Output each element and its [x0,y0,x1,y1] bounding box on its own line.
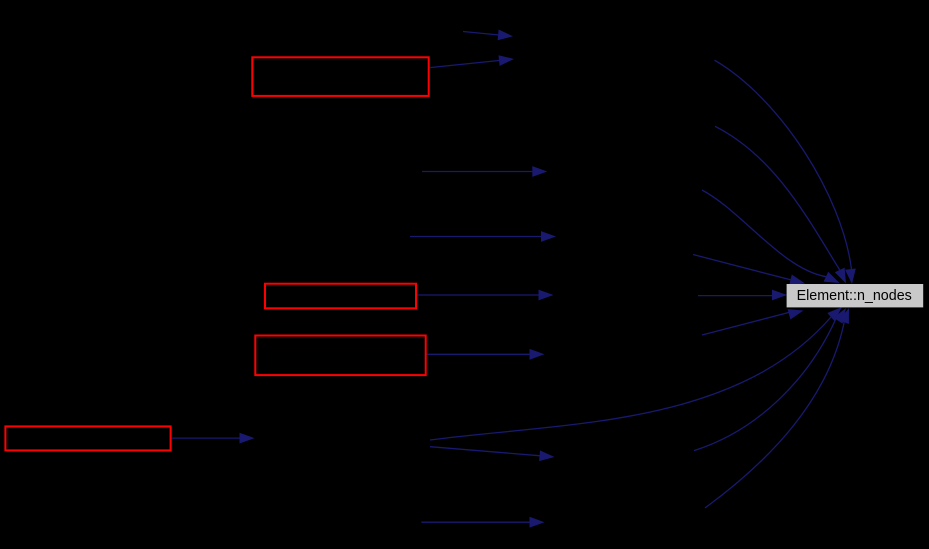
wire arrow edge3 (hidden caller to mid node 3) [422,166,547,177]
red node box R1 [252,57,428,96]
wire curve A (mid node 1 to Element::n_nodes top) [715,60,856,284]
wire arrow edge9 (hidden caller to mid node 8) [421,517,544,528]
red node box R3 [255,336,425,376]
wire diagonal S (mid node 6 to Element::n_nodes bottom-left) [702,309,804,335]
wire curve F (mid node 7 to Element::n_nodes bottom) [694,308,846,451]
wire arrow edge1 (hidden caller to mid node 1) [463,30,513,41]
wire arrow edge4 (hidden caller to mid node 4) [410,231,556,242]
wire curve E (col2 node to Element::n_nodes bottom) [430,307,842,440]
red node box R2 [265,284,416,309]
red node box R4 [5,426,170,450]
wire arrow edge2 (red box R1 to mid node 1) [430,55,514,67]
svg-text:Element::n_nodes: Element::n_nodes [797,288,912,304]
wire arrow H (mid node 5 to Element::n_nodes left) [698,290,787,301]
wire arrow edge5 (red box R2 to mid node 5) [417,290,554,301]
wire diagonal D (mid node 4 to Element::n_nodes top-left) [693,255,805,286]
node Element::n_nodes (grey highlighted node) [787,284,924,307]
wire curve G (mid node 8 to Element::n_nodes bottom) [705,308,849,508]
wire curve B (mid node 2 to Element::n_nodes top) [715,126,846,283]
wire curve C (mid node 3 to Element::n_nodes top) [702,190,840,283]
wire arrow edge7 (red box R4 to col2 node) [172,433,255,444]
wire arrow edge6 (red box R3 to mid node 6) [427,349,545,360]
wire arrow edge8 (col2 node to mid node 7) [430,447,555,461]
